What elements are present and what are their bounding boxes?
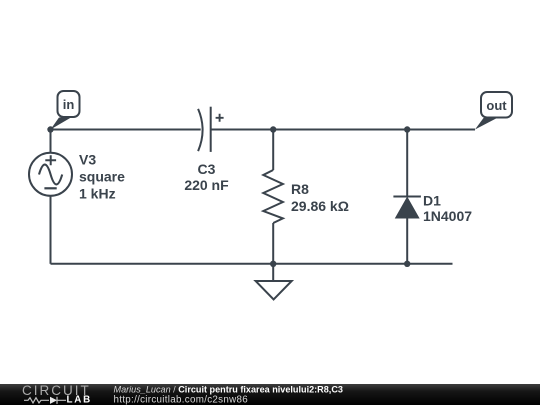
svg-text:in: in xyxy=(63,97,75,112)
node diode bottom junction xyxy=(404,261,410,267)
label R8 name/value xyxy=(291,181,349,214)
wire diode bottom lead xyxy=(406,218,408,264)
wire top rail right segment (C3 to out) xyxy=(211,129,475,131)
svg-text:1N4007: 1N4007 xyxy=(423,208,472,224)
wire V3 top lead xyxy=(50,130,52,153)
node resistor top junction xyxy=(270,126,276,132)
wire resistor bottom lead xyxy=(272,223,274,264)
svg-text:220 nF: 220 nF xyxy=(184,177,229,193)
footer logo LAB xyxy=(67,395,93,405)
diode D1 xyxy=(393,197,421,219)
node diode top junction xyxy=(404,126,410,132)
svg-text:29.86 kΩ: 29.86 kΩ xyxy=(291,198,349,214)
footer bar xyxy=(0,384,540,405)
label D1 name/value xyxy=(423,193,472,224)
voltage source V3 xyxy=(29,153,72,196)
svg-text:http://circuitlab.com/c2snw86: http://circuitlab.com/c2snw86 xyxy=(114,394,249,405)
footer logo CIRCUIT xyxy=(22,383,91,398)
flag in xyxy=(51,91,80,130)
node ground junction xyxy=(270,261,276,267)
wire top rail left segment (in node to C3) xyxy=(51,129,201,131)
label C3 name/value xyxy=(184,161,229,193)
wire resistor top lead xyxy=(272,130,274,171)
footer title line xyxy=(114,385,343,395)
footer logo circuit glyph (resistor + diode wire) xyxy=(24,397,66,404)
svg-text:out: out xyxy=(486,98,507,113)
svg-text:V3: V3 xyxy=(79,151,96,167)
wire bottom rail xyxy=(51,263,453,265)
svg-text:R8: R8 xyxy=(291,181,309,197)
svg-text:Marius_Lucan / Circuit pentru: Marius_Lucan / Circuit pentru fixarea ni… xyxy=(114,385,343,395)
svg-text:D1: D1 xyxy=(423,193,441,209)
svg-text:C3: C3 xyxy=(198,161,216,177)
node in (junction dot) xyxy=(47,126,53,132)
svg-text:square: square xyxy=(79,168,125,184)
svg-text:LAB: LAB xyxy=(67,395,93,405)
svg-text:1 kHz: 1 kHz xyxy=(79,186,116,202)
footer url line xyxy=(114,394,249,405)
flag out xyxy=(475,92,512,130)
wire diode top lead xyxy=(406,130,408,197)
capacitor C3 xyxy=(198,107,224,152)
label V3 name/value xyxy=(79,151,125,201)
ground xyxy=(256,264,292,300)
wire V3 bottom lead xyxy=(50,196,52,263)
resistor R8 xyxy=(263,170,283,223)
